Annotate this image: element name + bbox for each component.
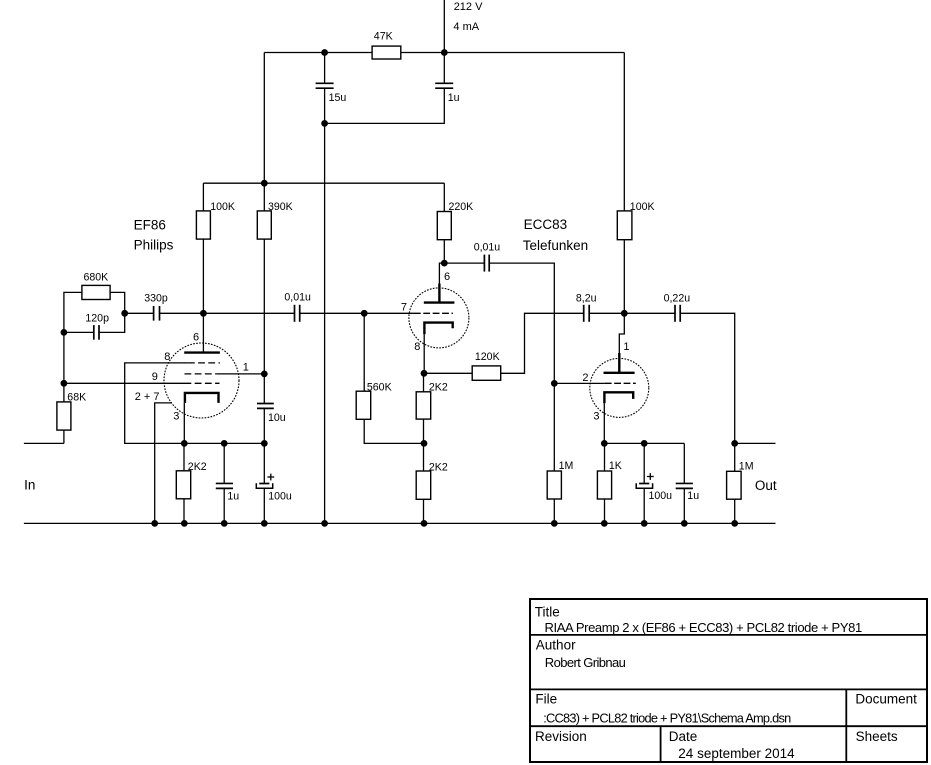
- grid row 9 EF86: [185, 382, 220, 384]
- svg-text:0,22u: 0,22u: [664, 292, 691, 304]
- wire pin 2+7 shield lead: [155, 403, 172, 524]
- junction bottom rail x224: [221, 520, 228, 527]
- junction bottom rail x264: [261, 520, 268, 527]
- svg-text:Philips: Philips: [134, 238, 174, 253]
- wire 120K left lead: [424, 372, 472, 374]
- title block divider document column: [845, 689, 847, 762]
- wire 390K bottom to anode node: [263, 239, 265, 374]
- wire anode node to 10u: [263, 374, 265, 404]
- junction bottom rail x684: [681, 520, 688, 527]
- wire 0,22u to output: [680, 313, 735, 523]
- wire 1K bottom lead: [604, 499, 606, 523]
- wire 2K2 stage1 top lead: [183, 443, 185, 470]
- wire 100K stage3 top feed: [623, 53, 625, 211]
- svg-text:Revision: Revision: [535, 729, 587, 744]
- wire 120p left branch: [64, 331, 94, 333]
- resistor 560K lead: [363, 313, 365, 391]
- svg-text:8: 8: [164, 351, 170, 363]
- junction bottom rail x604: [601, 520, 608, 527]
- svg-text:1: 1: [623, 341, 629, 353]
- wire 212V feed: [443, 0, 445, 53]
- wire 680K right lead: [110, 292, 125, 313]
- wire 2K2 stage1 bottom lead: [183, 499, 185, 524]
- svg-text:6: 6: [444, 271, 450, 283]
- title block divider date column: [660, 726, 662, 762]
- svg-text:47K: 47K: [374, 31, 393, 43]
- svg-text:2K2: 2K2: [429, 382, 448, 394]
- svg-text:100u: 100u: [649, 490, 673, 502]
- resistor 2K2 lower stage2: [416, 471, 431, 499]
- junction bottom rail x154: [151, 520, 158, 527]
- resistor 1K: [597, 471, 611, 499]
- wire 120p right branch: [99, 313, 125, 332]
- cathode triodeB: [604, 392, 633, 403]
- svg-text:2 + 7: 2 + 7: [135, 391, 160, 403]
- wire 2K2 upper bottom lead: [423, 419, 425, 443]
- junction 390K at y183 rail: [261, 180, 268, 187]
- svg-text:1u: 1u: [227, 490, 239, 502]
- svg-text:8: 8: [414, 341, 420, 353]
- svg-text:120K: 120K: [475, 351, 500, 363]
- svg-text:100u: 100u: [268, 490, 292, 502]
- svg-text:1M: 1M: [739, 461, 754, 473]
- wire 100K top lead: [202, 183, 204, 211]
- svg-text:100K: 100K: [210, 201, 235, 213]
- capacitor 8,2u: [583, 305, 585, 322]
- svg-text:390K: 390K: [268, 201, 293, 213]
- junction top rail at supply: [441, 49, 448, 56]
- junction output load top: [731, 440, 738, 447]
- wire 560K bottom link: [364, 419, 424, 443]
- junction triodeA cathode node: [421, 370, 428, 377]
- wire pin8 loop: [125, 363, 265, 444]
- wire bottom ground rail: [24, 522, 776, 524]
- wire 120K right to 8,2u: [501, 313, 584, 373]
- svg-text:15u: 15u: [329, 92, 347, 104]
- resistor 220K: [437, 212, 451, 240]
- tube EF86 envelope: [164, 343, 239, 418]
- wire triodeB plate jog: [619, 313, 624, 354]
- capacitor 15u: [316, 82, 334, 84]
- title block divider under file: [530, 725, 927, 727]
- junction 100u right top: [641, 440, 648, 447]
- wire triodeA anode to 0,01u: [444, 262, 484, 264]
- svg-text:10u: 10u: [268, 412, 286, 424]
- wire 1u left bottom lead: [223, 488, 225, 523]
- capacitor 1u stage1: [216, 482, 233, 484]
- wire 8,2u to triodeB anode node: [589, 312, 624, 314]
- wire 2K2 lower top lead: [423, 443, 425, 471]
- resistor 100K stage3: [617, 211, 632, 240]
- junction bottom rail x324: [321, 520, 328, 527]
- junction 680K 120p 330p node: [121, 310, 128, 317]
- title block frame: [530, 599, 927, 762]
- wire stage3 cathode rail: [604, 442, 684, 444]
- svg-text:ECC83: ECC83: [524, 217, 568, 232]
- wire triodeB anode to 0,22u: [624, 312, 675, 314]
- wire 68K bottom lead: [63, 430, 65, 443]
- svg-text:Document: Document: [855, 692, 917, 707]
- wire 1u left top lead: [223, 443, 225, 483]
- svg-text:560K: 560K: [367, 382, 392, 394]
- wire 100u left top lead: [263, 443, 265, 483]
- wire 390K top feed: [263, 53, 265, 211]
- wire 15u bottom to 1u bottom link: [325, 88, 445, 123]
- wire 15u top lead: [324, 53, 326, 84]
- svg-text:Sheets: Sheets: [856, 729, 898, 744]
- label plus 100u stage1: [267, 476, 274, 478]
- junction grid9 left: [61, 380, 68, 387]
- resistor 560K: [356, 391, 371, 419]
- wire 1M mid bottom lead: [553, 499, 555, 523]
- junction 15u bottom: [321, 120, 328, 127]
- svg-text:24 september 2014: 24 september 2014: [678, 746, 795, 761]
- junction triodeB anode node: [621, 310, 628, 317]
- wire triodeA plate jog: [439, 263, 444, 284]
- junction triodeB grid node: [551, 380, 558, 387]
- svg-text:Title: Title: [535, 604, 560, 619]
- capacitor 1u top: [435, 82, 453, 84]
- junction triodeA anode node: [441, 260, 448, 267]
- wire 1u right bottom lead: [683, 488, 685, 523]
- svg-text:In: In: [24, 478, 35, 493]
- capacitor 0,01u stage2-3: [483, 255, 485, 272]
- wire 330p left lead: [125, 312, 154, 314]
- svg-text:680K: 680K: [84, 272, 109, 284]
- wire triodeB cathode lead: [603, 403, 605, 443]
- capacitor 100u stage1 electrolytic: [259, 483, 269, 485]
- svg-text:212 V: 212 V: [454, 1, 483, 13]
- plate bar triodeA: [424, 301, 455, 303]
- wire In terminal top: [24, 442, 64, 444]
- svg-text:7: 7: [401, 302, 407, 314]
- wire pin9 grid lead: [64, 382, 185, 384]
- grid row triodeA: [414, 312, 453, 314]
- resistor 680K: [82, 285, 110, 299]
- plate bar EF86: [184, 351, 220, 353]
- junction 560K 2K2 node: [421, 440, 428, 447]
- grid row triodeB: [605, 382, 636, 384]
- wire 15u line down: [324, 123, 326, 523]
- junction bottom rail x554: [551, 520, 558, 527]
- label plus 100u stage3: [647, 476, 654, 478]
- junction triodeB cathode node: [601, 440, 608, 447]
- wire triodeA cathode lead: [423, 334, 425, 373]
- wire 1M mid top lead: [553, 383, 555, 471]
- capacitor 0,01u stage1-2: [294, 305, 296, 322]
- svg-text:2: 2: [582, 372, 588, 384]
- svg-text:8,2u: 8,2u: [576, 292, 597, 304]
- junction 120p left: [61, 329, 68, 336]
- wire 1K top lead: [604, 443, 606, 471]
- wire 100u right top lead: [643, 443, 645, 483]
- wire 100K bottom to grid node: [202, 239, 204, 313]
- title block divider under title: [530, 634, 927, 636]
- svg-text:120p: 120p: [85, 312, 109, 324]
- resistor 390K: [257, 211, 271, 239]
- junction 560K top: [361, 310, 368, 317]
- svg-text:6: 6: [193, 332, 199, 344]
- svg-text:Telefunken: Telefunken: [523, 238, 588, 253]
- title block divider under author: [530, 688, 927, 690]
- svg-text:0,01u: 0,01u: [284, 292, 311, 304]
- junction bottom rail x734: [731, 520, 738, 527]
- svg-text:330p: 330p: [144, 292, 168, 304]
- wire 1u top lead: [443, 53, 445, 84]
- wire 2K2 upper top lead: [423, 373, 425, 392]
- junction bottom rail x644: [641, 520, 648, 527]
- plate bar triodeB: [604, 372, 635, 374]
- capacitor 1u stage3: [676, 482, 693, 484]
- junction cathode rail at 1u: [221, 440, 228, 447]
- svg-text:3: 3: [173, 410, 179, 422]
- wire EF86 pin6 stem: [202, 313, 204, 352]
- wire top rail left: [264, 52, 372, 54]
- resistor 68K: [57, 402, 71, 430]
- resistor 2K2 stage1: [176, 471, 190, 499]
- wire pin1 to anode node: [216, 373, 264, 375]
- svg-text:Out: Out: [755, 478, 777, 493]
- wire 220K top lead: [443, 183, 445, 211]
- svg-text:100K: 100K: [630, 201, 655, 213]
- wire triodeB grid lead: [554, 382, 605, 384]
- svg-text:220K: 220K: [449, 201, 474, 213]
- resistor 47K: [372, 46, 401, 59]
- svg-text:68K: 68K: [67, 392, 86, 404]
- svg-text:2K2: 2K2: [429, 462, 448, 474]
- wire left vertical 68K to 680K: [64, 292, 82, 402]
- svg-text:2K2: 2K2: [188, 461, 207, 473]
- capacitor 10u: [257, 403, 274, 405]
- junction cathode rail at 100u: [261, 440, 268, 447]
- wire 2K2 lower bottom lead: [423, 499, 425, 523]
- svg-text:1u: 1u: [687, 490, 699, 502]
- wire Out terminal top: [735, 442, 776, 444]
- resistor 1M stage3 grid: [547, 471, 561, 499]
- svg-text:9: 9: [152, 371, 158, 383]
- svg-text:RIAA Preamp 2 x (EF86 + ECC83): RIAA Preamp 2 x (EF86 + ECC83) + PCL82 t…: [545, 620, 862, 635]
- wire 330p to grid node: [160, 312, 204, 314]
- svg-text:Date: Date: [669, 729, 698, 744]
- svg-text:1u: 1u: [448, 92, 460, 104]
- grid row 8 EF86: [188, 362, 220, 364]
- capacitor 100u stage3 electrolytic: [639, 483, 649, 485]
- cathode EF86: [185, 393, 219, 403]
- wire 100u left bottom lead: [263, 488, 265, 523]
- junction bottom rail x184: [181, 520, 188, 527]
- junction cathode rail at pin3: [181, 440, 188, 447]
- svg-text:1K: 1K: [609, 460, 622, 472]
- svg-text::CC83) + PCL82 triode + PY81\S: :CC83) + PCL82 triode + PY81\Schema Amp.…: [543, 710, 791, 725]
- resistor 1M output: [727, 471, 742, 499]
- wire pin3 cathode lead: [183, 403, 185, 444]
- wire 1u right top lead: [683, 443, 685, 483]
- resistor 2K2 upper stage2: [416, 392, 431, 419]
- capacitor 330p: [153, 306, 155, 321]
- capacitor 120p: [93, 325, 95, 340]
- svg-text:1: 1: [243, 362, 249, 374]
- junction top rail at 15u: [321, 49, 328, 56]
- resistor 100K stage1: [196, 211, 210, 239]
- wire y183 rail: [203, 182, 444, 184]
- wire 100K stage3 bottom lead: [623, 240, 625, 314]
- cathode triodeA: [424, 323, 452, 335]
- junction anode node pin1: [261, 371, 268, 378]
- resistor 120K: [472, 366, 501, 380]
- svg-text:Robert Gribnau: Robert Gribnau: [545, 655, 626, 670]
- wire 10u to cathode rail: [263, 408, 265, 443]
- svg-text:Author: Author: [536, 637, 576, 652]
- wire grid node to 0,01u: [203, 312, 294, 314]
- wire triodeB plate stem bold: [618, 353, 620, 373]
- junction stage1 grid node: [200, 310, 207, 317]
- tube ECC83 triode B envelope: [590, 358, 649, 417]
- tube ECC83 triode A envelope: [409, 288, 469, 348]
- wire triodeA plate stem bold: [438, 284, 440, 303]
- wire 100u right bottom lead: [643, 488, 645, 523]
- svg-text:4 mA: 4 mA: [453, 21, 479, 33]
- wire 220K bottom lead: [443, 240, 445, 263]
- wire 0,01u to ECC83 grid: [300, 312, 414, 314]
- svg-text:3: 3: [593, 410, 599, 422]
- svg-text:EF86: EF86: [134, 218, 166, 233]
- grid row 1 EF86: [185, 373, 217, 375]
- wire top rail right: [401, 52, 625, 54]
- wire 0,01u to grid corner: [489, 263, 554, 383]
- svg-text:0,01u: 0,01u: [474, 242, 501, 254]
- svg-text:1M: 1M: [559, 460, 574, 472]
- capacitor 0,22u: [674, 305, 676, 322]
- junction bottom rail x424: [421, 520, 428, 527]
- svg-text:File: File: [535, 692, 557, 707]
